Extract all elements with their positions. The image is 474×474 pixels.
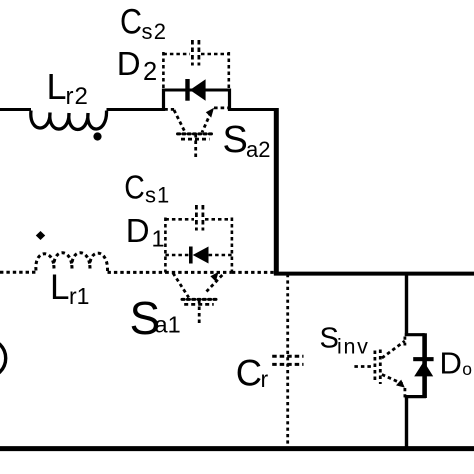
bottom rail <box>0 446 474 451</box>
label Lr1 <box>50 268 89 309</box>
wire Lr1 to D1 block (dashed) <box>108 271 167 274</box>
label D2 <box>117 45 157 86</box>
svg-text:r: r <box>261 366 269 392</box>
wire dashed stub left (Sa2 path) <box>165 108 175 111</box>
transistor Sa2 (dashed auxiliary switch) <box>174 110 213 158</box>
label Sinv <box>320 323 370 359</box>
svg-text:D: D <box>117 45 141 82</box>
mid rail <box>274 272 474 276</box>
svg-text:C: C <box>236 352 262 394</box>
label Cs2 <box>120 1 167 44</box>
wire Sinv branch upper <box>405 273 408 336</box>
svg-text:r2: r2 <box>66 83 89 110</box>
wire Sinv branch lower <box>405 395 408 448</box>
label Sa2 <box>223 119 271 162</box>
svg-text:2: 2 <box>143 58 157 86</box>
diamond marker near Lr1 <box>36 231 45 240</box>
svg-text:r1: r1 <box>69 283 89 309</box>
wire Do vertical <box>422 333 427 398</box>
wire Do bypass bottom <box>405 395 426 398</box>
transistor Sa1 (dashed auxiliary switch) <box>173 273 222 323</box>
diode D2 <box>185 79 205 101</box>
label Lr2 <box>47 66 89 110</box>
wire Do bypass top <box>405 333 425 336</box>
svg-text:s1: s1 <box>145 182 170 207</box>
inductor Lr2 <box>31 111 107 130</box>
polarity dot of Lr2 <box>93 132 101 140</box>
label Sa1 <box>130 292 181 344</box>
capacitor Cs1 rect (dashed) <box>165 218 232 273</box>
wire dashed stub right (Sa2 path) <box>214 107 229 110</box>
label Cr <box>236 352 269 394</box>
svg-text:inv: inv <box>337 335 370 359</box>
wire D2 to node <box>228 108 276 111</box>
svg-text:L: L <box>50 268 69 307</box>
wire D1 block to node (dashed) <box>232 271 275 274</box>
transistor Sinv (dashed IGBT) <box>354 337 405 400</box>
Cs2 plates <box>192 40 199 66</box>
wire mid dashed input <box>0 271 36 274</box>
wire D2 branch <box>162 89 231 92</box>
label Cs1 <box>124 168 170 207</box>
diode D1 <box>189 247 209 264</box>
wire Lr2 to D2 step <box>107 108 166 111</box>
svg-text:a1: a1 <box>155 312 181 338</box>
wire step up left of D2 <box>162 89 165 112</box>
diode Do <box>413 357 433 376</box>
capacitor Cs2 (dashed snubber around D2) <box>163 52 228 89</box>
svg-text:L: L <box>47 66 67 107</box>
svg-text:o: o <box>462 359 472 379</box>
svg-text:D: D <box>126 212 150 249</box>
wire step down right of D2 <box>228 89 231 112</box>
svg-text:S: S <box>223 119 248 161</box>
capacitor Cr branch (dashed) <box>286 274 289 447</box>
svg-text:s2: s2 <box>142 19 168 44</box>
wire D1 branch (dashed) <box>165 254 232 257</box>
svg-text:a2: a2 <box>246 137 270 162</box>
svg-text:S: S <box>320 323 339 355</box>
Cr plates <box>272 356 303 364</box>
source arc (cropped at left edge) <box>0 339 6 377</box>
Sinv arrowhead <box>396 380 405 388</box>
Sa1 arrowhead <box>210 272 218 282</box>
svg-text:C: C <box>120 1 142 40</box>
svg-text:1: 1 <box>152 225 165 251</box>
inductor Lr1 (dashed) <box>36 253 108 272</box>
Cs1 plates <box>196 205 203 231</box>
label D1 <box>126 212 165 251</box>
svg-text:D: D <box>440 346 462 381</box>
node vertical bus (top branch to mid rail) <box>274 108 279 276</box>
label Do <box>440 346 473 381</box>
wire D1 block bottom (dashed) <box>165 271 232 274</box>
Sa2 arrowhead <box>206 108 214 118</box>
wire top-left input <box>0 108 31 111</box>
svg-text:C: C <box>124 168 144 206</box>
